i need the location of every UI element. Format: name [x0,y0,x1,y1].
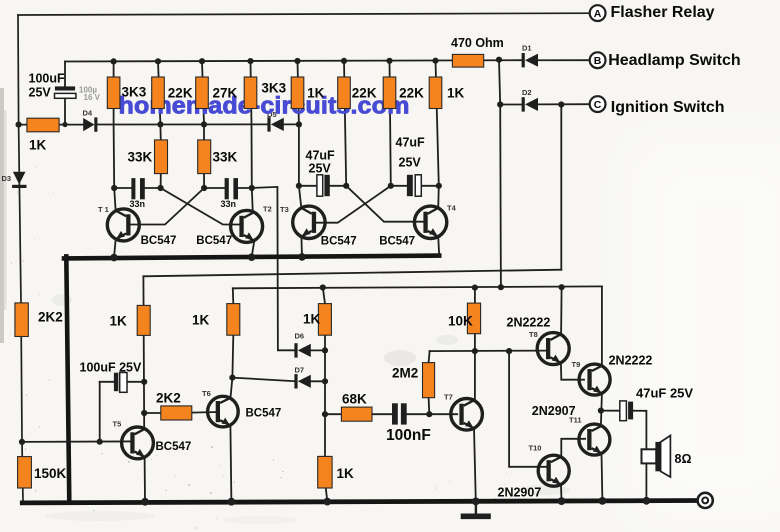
node dots top rail [111,57,503,65]
transistor T8 2N2222 [537,333,569,365]
wire 10K column to T7 collector [474,288,476,401]
wire 1K column to T5 collector [142,276,145,429]
label 47uF 25V (C4) [396,136,426,170]
node dots thick rail [110,253,306,261]
svg-text:22K: 22K [168,86,193,101]
wire 22K column to C3 47uF right node [344,61,346,186]
diode D7 [294,374,310,388]
wire cross-coupling to T2 base [161,188,239,225]
resistor 27K [196,77,209,109]
svg-text:T5: T5 [113,420,122,429]
resistor 2K2 (left rail) [15,303,28,337]
transistor T7 [451,399,483,502]
wire feed B (y=287 rail) [233,286,602,288]
scan artifact: left edge streak [0,88,4,343]
diode D5 [267,117,283,131]
resistor 1K (column x=325) [318,304,331,336]
svg-text:22K: 22K [399,86,424,101]
resistor 10K [467,303,480,334]
transistor T2 BC547 [231,210,263,257]
terminal A Flasher Relay [590,5,606,21]
resistor 150K [18,457,32,488]
node dots bottom rail [141,497,650,506]
wire astable1 output down to D6 [252,187,295,350]
svg-text:22K: 22K [352,86,377,101]
node dots T5 stage [19,379,147,445]
wire T8 emitter to T9 base [561,363,584,380]
svg-text:47uF 25V: 47uF 25V [636,386,693,401]
svg-text:25V: 25V [399,156,422,170]
wire thick bottom ground rail [22,501,696,503]
svg-text:T 1: T 1 [98,205,109,214]
wire T6 collector column [230,335,233,398]
svg-text:T6: T6 [202,389,211,398]
svg-text:Headlamp Switch: Headlamp Switch [608,52,740,69]
terminal C Ignition Switch [590,96,606,112]
wire feed A (to 1K T5 load) [143,270,561,277]
resistor 68K [341,407,372,421]
svg-text:D1: D1 [522,44,532,53]
svg-text:3K3: 3K3 [122,85,147,100]
svg-text:B: B [594,55,602,67]
resistor 1K (T6 load) [227,304,240,336]
svg-text:D2: D2 [522,88,532,97]
svg-text:Flasher Relay: Flasher Relay [611,4,715,21]
wire 27K/33K column (astable1 right) [202,61,204,188]
svg-text:1K: 1K [307,86,325,101]
svg-text:100uF 25V: 100uF 25V [80,361,143,375]
resistor 470 Ohm [452,54,483,67]
resistor 3K3 (second) [244,77,257,109]
scan artifact: smudges [384,350,416,366]
wire T6 collector to D7 [232,378,294,382]
svg-text:T9: T9 [572,360,581,369]
resistor 22K (astable2 b) [383,77,396,109]
svg-text:BC547: BC547 [379,236,415,248]
node dots feed B row [320,284,565,291]
svg-text:33n: 33n [130,199,146,209]
wire thick emitter rail (astables) [64,256,439,259]
wire D2 row to Ignition terminal [500,103,590,105]
node dots astable2 row [296,183,442,189]
wire 1K/68K column (x=325) [323,288,325,457]
wire top line to Flasher Relay terminal A [18,13,590,15]
svg-text:T8: T8 [529,330,538,339]
svg-text:25V: 25V [309,162,332,176]
transistor T9 2N2222 [579,364,610,395]
wire D6 to 1K column [310,349,325,351]
svg-text:2N2222: 2N2222 [507,316,551,330]
svg-text:100uF: 100uF [29,72,65,86]
svg-text:150K: 150K [34,466,67,481]
transistor T6 BC547 [208,396,239,501]
svg-text:2N2907: 2N2907 [532,404,576,418]
svg-text:2K2: 2K2 [156,391,181,406]
wire base node row astable1 right (33n C2b links) [204,187,252,189]
wire node row astable2 (47uF links) [299,185,439,187]
svg-text:100nF: 100nF [386,427,431,444]
svg-text:BC547: BC547 [246,408,282,420]
wire T10 base feed [509,351,548,467]
svg-text:8Ω: 8Ω [675,452,692,466]
transistor T3 BC547 [293,206,325,257]
svg-text:68K: 68K [342,392,367,407]
svg-text:T7: T7 [444,393,453,402]
wire T8 collector drop [560,287,563,334]
wire T9 collector drop [601,286,603,365]
svg-text:BC547: BC547 [141,235,177,247]
capacitor C7 47uF 25V (output) [620,401,633,421]
wire cross-coupling to T1 base [129,188,204,225]
wire D1/D2 supply column [499,60,501,288]
wire +V rail y=61 (top distribution rail) [65,60,590,61]
wire T5 base row [22,440,132,443]
resistor 2M2 [423,363,435,398]
svg-text:16 V: 16 V [84,93,101,102]
svg-text:T10: T10 [529,444,542,453]
node dots astable1 base row [111,185,255,191]
resistor 3K3 (first) [107,77,120,109]
transistor T5 BC547 [122,427,154,502]
svg-text:A: A [594,8,602,20]
capacitor C5 100nF [392,403,407,424]
capacitor C4 47uF 25V (astable2 right) [407,175,421,196]
wire 47uF C7 to speaker [601,411,647,501]
svg-text:1K: 1K [303,312,321,327]
resistor 22K (astable2 a) [338,77,351,109]
wire 22K/33K column (astable1 left) [158,61,161,188]
diode D3 (pointing down) [12,172,26,188]
wire supply line y=125 (1K / D4 / D5 row) [19,123,299,125]
diode D4 [83,117,97,131]
svg-text:1K: 1K [110,314,128,329]
node dots supply line y=125 [16,121,303,127]
diode D1 [522,53,538,67]
wire T11 base to T10 collector [561,439,585,458]
svg-text:D7: D7 [295,366,305,375]
label 100u 16V (gray) [79,86,101,103]
svg-text:D6: D6 [295,332,305,341]
wire D7 to 1K column [310,380,325,382]
capacitor C3 47uF 25V (astable2 left) [317,175,330,196]
wire 2M2 column [429,351,430,414]
svg-text:3K3: 3K3 [261,81,286,96]
resistor 1K (bottom, x=325) [318,456,332,488]
wire 100uF C1 column [64,62,66,125]
svg-text:47uF: 47uF [306,149,336,163]
wire 1K top stub (T6 load) [232,288,235,304]
wire base node row astable1 (33n C2a links) [114,187,160,189]
svg-text:1K: 1K [447,86,465,101]
svg-text:Ignition Switch: Ignition Switch [611,99,725,116]
svg-text:27K: 27K [213,86,238,101]
node dots D2 row [497,101,564,107]
svg-text:1K: 1K [337,466,355,481]
resistor 22K (astable1) [152,77,165,109]
svg-text:2N2222: 2N2222 [609,354,653,368]
label 100uF 25V (C1) [29,72,65,100]
svg-text:1K: 1K [29,138,47,153]
resistor 33K a [155,140,168,174]
label 47uF 25V (C3) [306,149,336,176]
resistor 1K (top, T4) [429,77,442,109]
svg-text:33K: 33K [128,150,153,165]
resistor 1K (top, T3) [291,77,304,109]
transistor T10 2N2907 [538,455,569,501]
diode D2 [522,97,538,111]
svg-text:47uF: 47uF [396,136,426,150]
wire thick left drop [66,256,69,502]
terminal B Headlamp Switch [590,52,606,68]
diode D6 [294,343,310,357]
wire 3K3 column to T1 collector [114,61,116,211]
node dots 1K/68K column [229,347,328,417]
resistor 33K b [198,140,211,174]
svg-text:1K: 1K [192,313,210,328]
wire ignition feed drop x=561 [560,105,562,270]
svg-text:2N2907: 2N2907 [498,485,542,499]
svg-text:470 Ohm: 470 Ohm [451,36,504,50]
transistor T11 2N2907 [579,424,610,501]
wire 100uF C6 links [100,382,145,442]
svg-text:25V: 25V [29,86,52,100]
capacitor C1 100uF 25V (top-left electrolytic) [55,86,76,98]
speaker 8 ohm [642,436,671,478]
resistor 2K2 (T6 base) [161,406,192,420]
svg-text:BC547: BC547 [156,441,192,453]
wire T9 emitter / T11 collector node [601,394,602,425]
resistor 1K (top-left horizontal) [27,118,59,132]
svg-text:33K: 33K [213,150,238,165]
svg-text:2M2: 2M2 [392,366,418,381]
svg-text:BC547: BC547 [321,236,357,248]
transistor T1 BC547 [107,209,139,258]
terminal output (bottom right) [698,493,713,508]
wire 2K2 to T6 base [144,412,217,413]
node dots amp [426,348,604,417]
svg-text:2K2: 2K2 [38,310,63,325]
wire 1K bottom stub to ground rail [326,488,328,502]
transistor T4 BC547 [414,206,446,256]
wire y=351 row (2M2 top to T8 base) [430,350,548,353]
capacitor C2a 33n [131,178,144,199]
wire 22K column to C4 47uF left node [390,61,391,186]
svg-text:BC547: BC547 [196,235,232,247]
wire cross-coupling to T4 base [346,186,424,222]
capacitor C2b 33n [225,178,238,199]
wire 1K column / D5 node to T3 collector [298,61,302,209]
wire 68K / 100nF / T7 base row [325,413,457,415]
wire 3K3 column to T2 collector [251,61,253,213]
svg-text:D4: D4 [83,109,93,118]
wire 1K column to T4 collector [436,61,439,209]
wire left rail (A line down left side) [18,15,23,502]
svg-text:C: C [594,99,602,111]
capacitor C6 100uF 25V (T5 stage) [114,373,127,393]
svg-text:D3: D3 [2,174,12,183]
svg-text:T3: T3 [280,205,289,214]
svg-text:T4: T4 [447,204,457,213]
svg-text:10K: 10K [448,314,473,329]
svg-text:33n: 33n [221,199,237,209]
ground symbol [464,503,489,516]
resistor 1K (T5 load) [137,305,150,335]
wire cross-coupling to T3 base [315,186,390,223]
svg-text:T2: T2 [263,205,272,214]
